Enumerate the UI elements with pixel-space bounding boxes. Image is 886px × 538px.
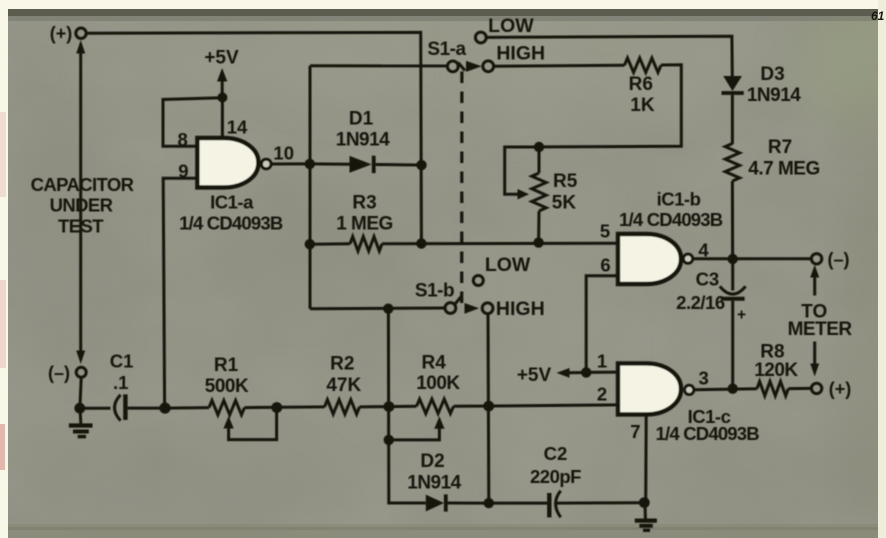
wire rail R2 to R4 (360, 405, 417, 409)
ground at (-) terminal (69, 406, 93, 437)
wire rail R1 to R2 (245, 405, 325, 409)
potentiometer R4 100K (389, 399, 454, 440)
junction R5 top / R6 feed (534, 142, 544, 152)
svg-text:1/4 CD4093B: 1/4 CD4093B (179, 212, 283, 233)
label IC1-c (656, 406, 760, 444)
svg-text:IC1-a: IC1-a (210, 192, 254, 213)
svg-text:8: 8 (178, 129, 188, 150)
junction R1 wiper / rail (271, 402, 282, 413)
svg-text:1/4 CD4093B: 1/4 CD4093B (619, 209, 723, 230)
svg-text:D1: D1 (349, 109, 374, 130)
label IC1-a (179, 192, 283, 234)
svg-text:4.7 MEG: 4.7 MEG (748, 158, 819, 179)
svg-text:+5V: +5V (517, 365, 552, 386)
svg-text:(–): (–) (828, 249, 850, 269)
label CAPACITOR UNDER TEST (31, 174, 134, 237)
svg-text:R5: R5 (553, 171, 578, 192)
power +5V at IC1-c pin 1 (517, 365, 586, 386)
junction S1-b branch / rail (384, 401, 395, 412)
label iC1-b (619, 188, 723, 230)
junction +5V / pin6 loop / pin 1 (581, 367, 591, 377)
switch S1-b (415, 254, 545, 320)
capacitor C3 2.2/16 (720, 259, 746, 384)
wire pin 7 (644, 415, 648, 503)
svg-text:47K: 47K (326, 375, 361, 396)
svg-text:1: 1 (597, 351, 607, 372)
junction R3 / top rail (416, 238, 426, 248)
node (+) meter terminal (811, 379, 851, 399)
wire S1-b down branch to D2 row (388, 309, 425, 503)
label TO METER with arrows (788, 265, 853, 377)
label D1 1N914 (336, 109, 390, 151)
switch gang dashed link S1-a to S1-b (460, 72, 463, 304)
wire S1-a HIGH contact to R6 (494, 64, 625, 68)
svg-text:HIGH: HIGH (496, 298, 545, 320)
junction pin3 / C3 bottom (728, 384, 738, 394)
diode D3 1N914 (722, 76, 744, 144)
svg-text:1/4 CD4093B: 1/4 CD4093B (656, 423, 760, 444)
diode D1 1N914 (310, 156, 418, 173)
svg-text:S1-a: S1-a (427, 39, 466, 60)
junction ground / rail (74, 403, 85, 414)
svg-text:TEST: TEST (58, 216, 104, 237)
potentiometer R5 5K (505, 147, 547, 243)
label R5 5K (552, 171, 578, 214)
svg-text:C1: C1 (110, 350, 134, 371)
junction S1-b pole feed / down branch (383, 304, 393, 314)
label R1 500K (205, 355, 249, 397)
wire pin 14 (221, 98, 224, 140)
wire pin 1 (586, 371, 618, 374)
svg-text:iC1-b: iC1-b (657, 188, 701, 209)
junction R4 wiper loop / S1-b branch (384, 435, 394, 445)
svg-text:5: 5 (600, 221, 610, 242)
svg-text:14: 14 (227, 117, 248, 138)
op-amp U2 IC1-b NAND gate (618, 234, 693, 284)
svg-text:C3: C3 (696, 268, 720, 289)
wire pin 4 output to (-) meter terminal (693, 257, 812, 260)
ground at pin 7 (635, 503, 657, 531)
label C2 220pF (530, 443, 581, 487)
svg-text:1N914: 1N914 (336, 130, 390, 151)
svg-text:R3: R3 (352, 193, 376, 214)
wire x310 bus from S1-a pole row down to S1-b pole row (309, 66, 312, 309)
junction R5 bottom / pin5 row (533, 237, 543, 247)
label R7 4.7 MEG (748, 137, 819, 180)
wire top rail from (+) to D1/R3 right side (87, 32, 422, 243)
node (-) capacitor-under-test terminal (48, 363, 86, 383)
svg-text:1N914: 1N914 (747, 85, 801, 106)
svg-text:S1-b: S1-b (415, 281, 454, 302)
wire S1-b pole feed (310, 307, 445, 311)
label R6 1K (629, 74, 655, 116)
label D2 1N914 (407, 451, 461, 494)
page margins (0, 0, 886, 9)
switch S1-a (427, 15, 545, 72)
svg-text:500K: 500K (205, 376, 249, 397)
wire rail R4 to IC1-c pin 2 (454, 405, 619, 406)
resistor R6 1K (544, 58, 681, 147)
svg-text:(–): (–) (48, 363, 70, 383)
wire pin 3 output to R8 (694, 389, 757, 390)
capacitor C2 220pF (489, 491, 640, 518)
junction pin10 / D1 row / x310 bus (305, 159, 315, 169)
svg-text:100K: 100K (416, 373, 460, 394)
junction pin4 / R7 / C3 (728, 254, 738, 264)
photo top dark edge (8, 9, 878, 16)
wire capacitor-under-test lead with arrows (76, 40, 85, 364)
svg-text:HIGH: HIGH (496, 43, 545, 65)
bottom rail wire segments (165, 406, 209, 410)
svg-text:METER: METER (788, 319, 853, 340)
svg-text:(+): (+) (50, 24, 73, 44)
svg-text:+5V: +5V (204, 48, 239, 69)
junction D2 / HIGH-b branch (484, 498, 494, 508)
diode D2 1N914 (426, 494, 484, 511)
wire pin 6 loop to pin 1 node (586, 276, 618, 373)
svg-text:1N914: 1N914 (407, 473, 461, 494)
label R2 47K (326, 353, 361, 396)
svg-text:C2: C2 (544, 443, 568, 464)
photo bottom dark edge (8, 527, 878, 538)
svg-text:2: 2 (597, 384, 607, 405)
junction HIGH-b branch / rail (483, 401, 494, 412)
svg-text:R1: R1 (214, 355, 239, 376)
svg-text:R2: R2 (330, 353, 354, 374)
node (+) capacitor-under-test terminal (50, 24, 86, 44)
junction D1 / top rail (416, 160, 426, 170)
label R3 1 MEG (336, 193, 393, 235)
node (-) meter terminal (811, 249, 849, 269)
op-amp U3 IC1-c NAND gate (618, 363, 694, 414)
svg-text:LOW: LOW (488, 15, 534, 37)
svg-text:CAPACITOR: CAPACITOR (31, 174, 134, 195)
label R4 100K (416, 352, 460, 394)
svg-text:3: 3 (699, 367, 709, 388)
resistor R3 1 MEG + wire to IC1-b pin 5 (310, 237, 618, 251)
svg-text:7: 7 (630, 421, 640, 442)
svg-text:220pF: 220pF (530, 466, 581, 487)
svg-text:10: 10 (273, 143, 294, 164)
label D3 1N914 (747, 64, 801, 106)
wire pin 9 down to bottom rail (163, 178, 196, 405)
svg-text:D2: D2 (420, 451, 444, 472)
svg-text:R4: R4 (422, 352, 447, 373)
svg-text:LOW: LOW (485, 254, 531, 276)
svg-text:1 MEG: 1 MEG (336, 214, 393, 235)
svg-text:+: + (737, 307, 746, 324)
wire pin 8 loop (163, 98, 222, 147)
pink scan bleed left edge (0, 112, 6, 197)
wire S1-a pole feed (310, 64, 447, 67)
capacitor C1 .1 (80, 394, 161, 420)
svg-text:R7: R7 (768, 137, 792, 158)
svg-text:1K: 1K (630, 95, 655, 116)
resistor R8 120K (757, 381, 811, 395)
label C1 .1 (110, 350, 134, 393)
resistor R2 47K (325, 400, 360, 414)
svg-text:D3: D3 (760, 64, 784, 85)
svg-text:(+): (+) (829, 379, 852, 399)
junction +5V / pin14 (217, 93, 227, 103)
wire HIGH-b contact down to rail and D2 row (487, 314, 491, 504)
svg-text:R6: R6 (629, 74, 653, 95)
svg-text:2.2/16: 2.2/16 (676, 292, 725, 313)
svg-text:.1: .1 (113, 372, 128, 393)
resistor R7 4.7 MEG (725, 144, 739, 256)
junction C2 / pin7 / ground (639, 497, 650, 508)
wire (-) terminal to ground rail (80, 378, 81, 405)
label C3 2.2/16 (676, 268, 725, 313)
svg-text:5K: 5K (552, 192, 577, 213)
label R8 120K (754, 341, 798, 381)
wire S1-a LOW contact to D3 branch (487, 36, 733, 76)
svg-text:UNDER: UNDER (50, 195, 113, 216)
power +5V at IC1-a (204, 48, 239, 95)
svg-text:61: 61 (871, 9, 885, 23)
junction pin9 / bottom rail (159, 403, 170, 414)
junction R3 row left (305, 239, 315, 249)
op-amp U1 IC1-a NAND gate (197, 138, 271, 187)
svg-text:120K: 120K (754, 360, 798, 381)
potentiometer R1 500K (209, 400, 277, 439)
wire pin 10 output (271, 162, 308, 165)
svg-text:6: 6 (600, 255, 610, 276)
